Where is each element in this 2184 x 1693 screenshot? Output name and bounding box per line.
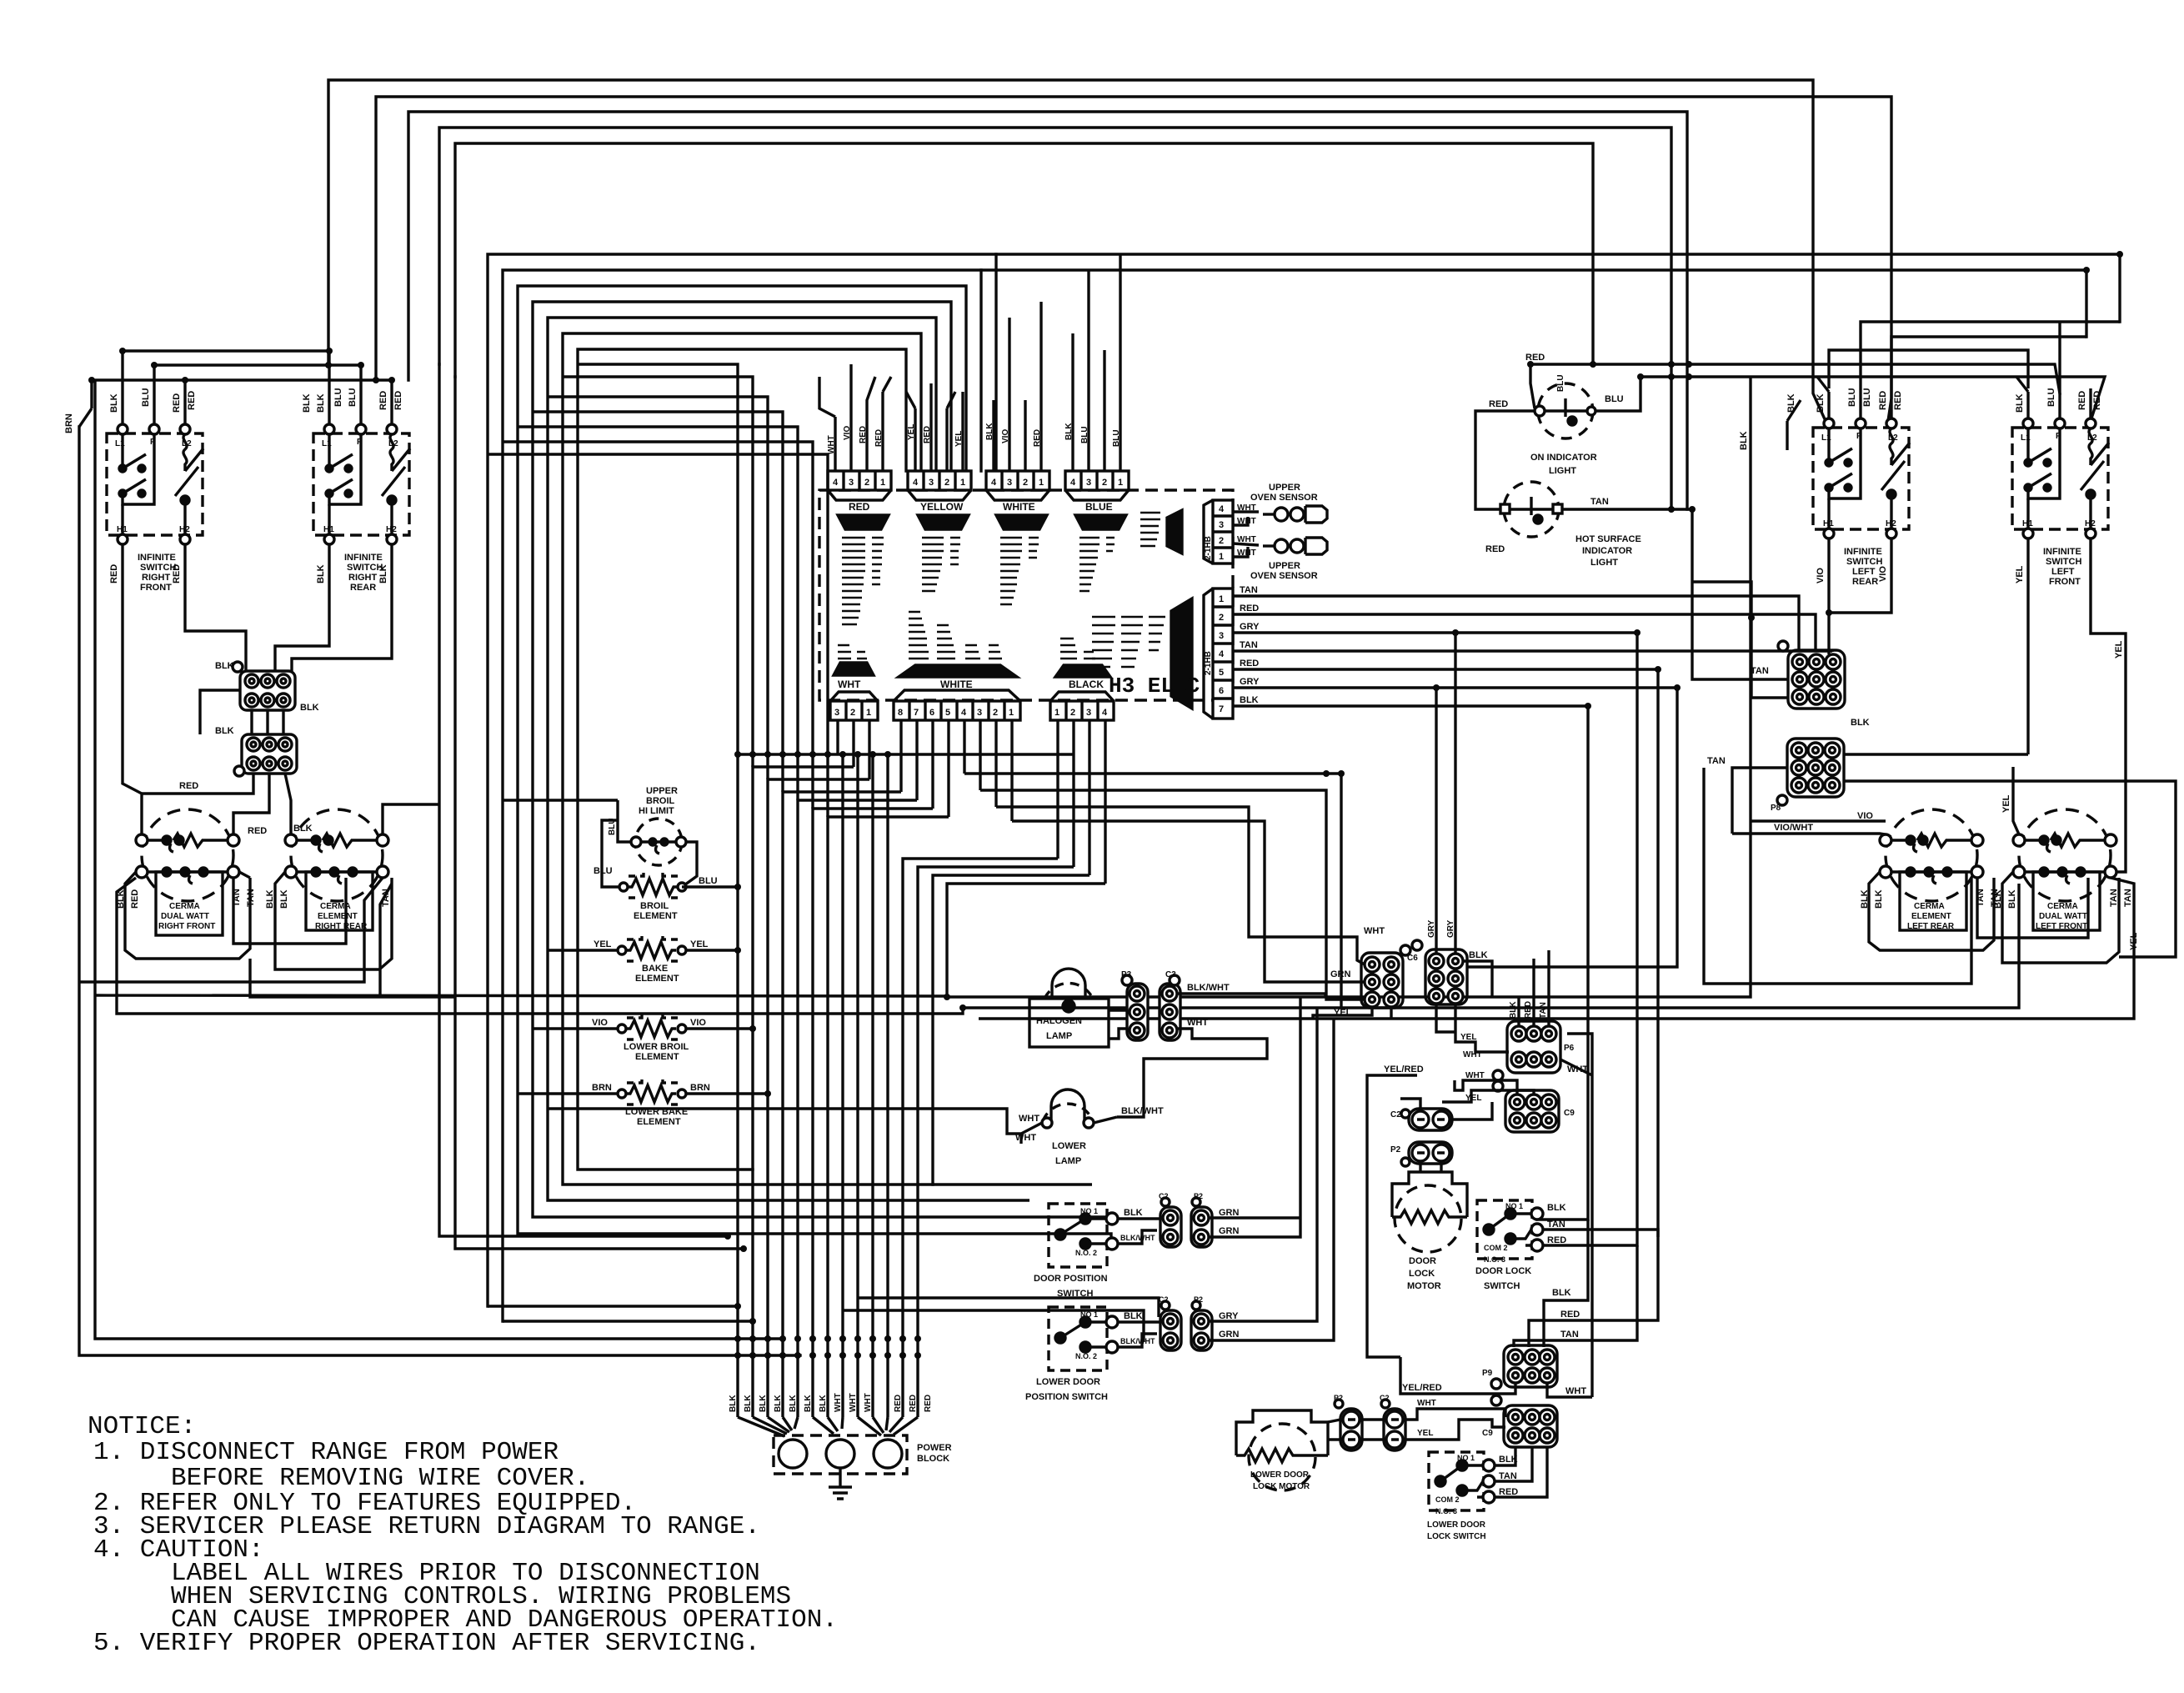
wire lower lamp left [548, 1109, 1042, 1144]
svg-text:LOWER DOOR: LOWER DOOR [1036, 1377, 1100, 1387]
svg-text:BLK: BLK [215, 726, 234, 736]
connector strip white top [986, 471, 1049, 500]
svg-text:H1: H1 [1823, 519, 1834, 528]
svg-text:YEL: YEL [2015, 565, 2025, 584]
svg-text:3: 3 [977, 708, 982, 718]
svg-text:RED: RED [2092, 391, 2102, 410]
p2 connector motor [1401, 1142, 1452, 1166]
bundle vertical 10 [871, 754, 874, 1417]
svg-text:TAN: TAN [2123, 889, 2133, 907]
svg-text:RED: RED [1499, 1487, 1518, 1497]
svg-text:RED: RED [1524, 1001, 1533, 1019]
svg-text:WHT: WHT [834, 1393, 843, 1412]
svg-text:BLK: BLK [2007, 889, 2017, 909]
wire red from block2 to cerma1 [142, 774, 253, 794]
wire cerma lf bottom loops [2002, 872, 2119, 963]
svg-text:SWITCH: SWITCH [1846, 557, 1882, 567]
svg-text:WHITE: WHITE [940, 679, 973, 690]
door position switch [1049, 1204, 1118, 1267]
wire gry row6 [1233, 688, 1677, 967]
svg-text:RED: RED [1240, 659, 1259, 669]
svg-text:RED: RED [172, 564, 182, 584]
svg-text:8: 8 [898, 708, 903, 718]
c3 connector [1160, 975, 1180, 1040]
wire yel-red left of p6 [1367, 1075, 1417, 1357]
wire dls tan [1543, 1230, 1658, 1237]
svg-text:2: 2 [1219, 613, 1224, 623]
svg-text:5. VERIFY PROPER OPERATION AFT: 5. VERIFY PROPER OPERATION AFTER SERVICI… [93, 1629, 760, 1658]
c6 connector [1361, 945, 1410, 1008]
svg-text:BROIL: BROIL [646, 796, 675, 806]
svg-text:WHT: WHT [1237, 548, 1256, 558]
svg-text:SWITCH: SWITCH [1484, 1281, 1520, 1291]
svg-text:LEFT: LEFT [1852, 567, 1876, 577]
wire broil blu right [682, 885, 738, 888]
bundle vertical 5 [798, 800, 917, 1417]
bundle vertical 4 [783, 792, 901, 1417]
wire loop to mid vertical [250, 959, 455, 997]
svg-text:C3: C3 [1165, 970, 1176, 979]
svg-text:BLK: BLK [215, 661, 234, 671]
svg-text:TAN: TAN [1590, 497, 1609, 507]
left section labels [64, 388, 403, 931]
dps p connector [1191, 1198, 1212, 1247]
c2 connector motor [1401, 1109, 1452, 1130]
svg-text:LOWER: LOWER [1052, 1141, 1086, 1151]
wire big left loop 3 [117, 878, 963, 1014]
svg-text:YEL: YEL [690, 939, 709, 949]
svg-text:2: 2 [1219, 536, 1224, 546]
wirelist black bottom [1060, 639, 1095, 659]
wire grn stair3 [964, 774, 1341, 1008]
svg-text:LEFT: LEFT [2051, 567, 2075, 577]
right section labels [1485, 353, 2139, 950]
svg-text:C2: C2 [1380, 1394, 1390, 1402]
svg-text:LEFT REAR: LEFT REAR [1907, 922, 1955, 931]
wire mid nest 6 [563, 333, 933, 1185]
svg-text:RIGHT: RIGHT [348, 573, 378, 583]
svg-text:WHT: WHT [1465, 1071, 1485, 1080]
svg-text:2: 2 [993, 708, 998, 718]
element labels [592, 786, 718, 1127]
svg-text:WHT: WHT [1417, 1399, 1436, 1408]
wire blk vertical right [947, 377, 1751, 997]
wire gry row3 [1233, 633, 1637, 1206]
wire right nest r2 [1891, 337, 2086, 388]
wire wht into c9 [1455, 1080, 1517, 1094]
funnel black bottom [1055, 665, 1110, 677]
svg-text:H2: H2 [1886, 519, 1896, 528]
wire left h1 down [123, 544, 142, 834]
svg-text:NO 1: NO 1 [1505, 1202, 1523, 1210]
svg-text:YEL: YEL [2114, 640, 2124, 659]
svg-text:BLK: BLK [1552, 1288, 1571, 1298]
svg-text:BLK/WHT: BLK/WHT [1187, 983, 1230, 993]
wire yel wht below p8 [1436, 1004, 1509, 1052]
svg-text:C2: C2 [1159, 1192, 1169, 1200]
wire hi limit loop [618, 820, 697, 887]
lamp labels [1015, 970, 1240, 1402]
svg-text:UPPER: UPPER [646, 786, 678, 796]
svg-text:BLK: BLK [1469, 950, 1488, 960]
bundle vertical 12 [903, 859, 1058, 1417]
svg-text:INFINITE: INFINITE [344, 553, 383, 563]
svg-text:P2: P2 [1390, 1145, 1401, 1155]
wire top bus 4 [439, 128, 1671, 510]
svg-text:L1: L1 [322, 439, 332, 448]
svg-text:P: P [2056, 432, 2061, 441]
svg-text:ELEMENT: ELEMENT [1911, 912, 1951, 921]
wire left P bus [154, 365, 361, 424]
svg-text:BLK: BLK [819, 1395, 828, 1412]
dps c connector [1160, 1198, 1181, 1247]
svg-text:BLOCK: BLOCK [917, 1454, 949, 1464]
wire mid nest 7 [578, 349, 906, 1170]
svg-text:4: 4 [1102, 708, 1108, 718]
svg-text:1: 1 [960, 478, 965, 488]
svg-text:LOCK MOTOR: LOCK MOTOR [1253, 1482, 1310, 1491]
wire ldps gry right [1209, 1008, 1334, 1340]
svg-text:BLK: BLK [109, 393, 119, 413]
wire tan row1 [1233, 596, 1799, 652]
wirelist right col2 [1092, 617, 1165, 675]
wirelist right col1 [1140, 513, 1160, 546]
svg-text:3: 3 [849, 478, 854, 488]
wire red to on light [1475, 364, 1535, 509]
svg-text:YEL: YEL [1460, 1033, 1476, 1042]
lower broil element [618, 1013, 686, 1039]
svg-text:BLK: BLK [1124, 1311, 1143, 1321]
wire bundle lower door 1 [858, 1298, 1159, 1317]
lower door lock motor [1236, 1410, 1328, 1490]
wire wht yel to lower c [1405, 1409, 1505, 1440]
svg-text:P6: P6 [1564, 1044, 1575, 1053]
svg-text:C2: C2 [1390, 1110, 1401, 1119]
svg-text:UPPER: UPPER [1269, 483, 1300, 493]
svg-text:1: 1 [1054, 708, 1059, 718]
sensor labels [1237, 483, 1318, 581]
wire mid vertical b [455, 377, 744, 1249]
on indicator light [1535, 383, 1595, 438]
svg-text:WHT: WHT [1463, 1050, 1482, 1059]
svg-text:RED: RED [109, 564, 119, 584]
wirelist text white [1000, 538, 1039, 604]
wire dls red [1543, 1206, 1637, 1245]
svg-text:3: 3 [1086, 478, 1091, 488]
lower bake element [618, 1078, 686, 1104]
svg-text:1. DISCONNECT RANGE FROM POWER: 1. DISCONNECT RANGE FROM POWER [93, 1438, 559, 1467]
connector block P2 left [234, 734, 297, 776]
svg-text:H1: H1 [2022, 519, 2033, 528]
upper broil hi limit [631, 819, 686, 865]
svg-text:INFINITE: INFINITE [1844, 547, 1882, 557]
svg-text:P: P [150, 438, 156, 447]
wire vio junction to block [1827, 634, 1830, 654]
svg-text:H2: H2 [179, 525, 190, 534]
svg-text:UPPER: UPPER [1269, 561, 1300, 571]
svg-text:BLACK: BLACK [1069, 679, 1104, 690]
svg-text:WHT: WHT [1015, 1133, 1036, 1143]
svg-text:YEL: YEL [2129, 932, 2139, 950]
svg-text:2: 2 [850, 708, 855, 718]
svg-text:BLU: BLU [2046, 388, 2056, 407]
svg-text:NO 1: NO 1 [1080, 1310, 1098, 1319]
svg-text:2-1HB: 2-1HB [1204, 536, 1213, 560]
wire blk4 right 1 [933, 875, 1092, 1185]
svg-text:6: 6 [929, 708, 934, 718]
svg-text:LEFT FRONT: LEFT FRONT [2036, 922, 2087, 931]
wire left h2 down [185, 544, 246, 671]
svg-text:BLU: BLU [1556, 374, 1565, 392]
svg-text:P9: P9 [1482, 1369, 1493, 1378]
svg-text:BLUE: BLUE [1085, 501, 1113, 513]
svg-text:3: 3 [1219, 631, 1224, 641]
svg-text:RED: RED [393, 391, 403, 410]
wire mid nest 4 [533, 302, 951, 1217]
svg-text:BLU: BLU [348, 388, 358, 407]
wire nest-to-bundle extension 3 [548, 397, 768, 779]
svg-text:P2: P2 [1334, 1394, 1343, 1402]
upper oven sensor 1 [1233, 506, 1327, 525]
wire blk long left [200, 690, 240, 734]
wire block1 to block2 [252, 710, 283, 734]
cerma dual watt right front [136, 809, 239, 935]
wire right nest r1 drop [2058, 322, 2061, 358]
wire tan from hot light [1562, 509, 1788, 679]
svg-text:BRN: BRN [592, 1083, 612, 1093]
wire hi limit top [503, 799, 618, 801]
wires blue strip up [1073, 254, 1120, 471]
svg-text:GRN: GRN [1330, 969, 1351, 979]
svg-text:INFINITE: INFINITE [138, 553, 176, 563]
svg-text:BLU: BLU [333, 388, 343, 407]
wire cerma loop tan right [233, 878, 346, 944]
svg-text:L2: L2 [2087, 433, 2097, 443]
svg-text:CERMA: CERMA [1914, 902, 1945, 911]
wire lls tan red [1495, 1447, 1547, 1497]
svg-text:H1: H1 [117, 525, 128, 534]
svg-text:WHT: WHT [1565, 1386, 1586, 1396]
svg-text:GRY: GRY [1240, 677, 1260, 687]
bundle vertical 11 [886, 754, 889, 1417]
svg-text:CERMA: CERMA [320, 902, 351, 911]
svg-text:ELEMENT: ELEMENT [637, 1117, 681, 1127]
svg-text:3: 3 [1086, 708, 1091, 718]
svg-text:DOOR LOCK: DOOR LOCK [1475, 1266, 1531, 1276]
svg-text:LOWER BROIL: LOWER BROIL [624, 1042, 689, 1052]
bundle vertical 7 [828, 817, 949, 1417]
svg-text:P3: P3 [1121, 970, 1132, 979]
wires into p6 top [1519, 950, 1549, 1025]
wire bottom left join 1 [488, 1305, 738, 1307]
svg-text:YEL: YEL [2001, 794, 2011, 813]
svg-text:HI LIMIT: HI LIMIT [639, 806, 674, 816]
broil element [619, 871, 686, 898]
wire red row5 [1233, 669, 1658, 1237]
svg-text:L1: L1 [2021, 433, 2031, 443]
wire big left loop 2 [95, 884, 947, 996]
infinite switch left front [2012, 418, 2109, 538]
upper oven sensor 2 [1233, 538, 1327, 557]
svg-text:RED: RED [1547, 1235, 1566, 1245]
svg-text:RIGHT REAR: RIGHT REAR [315, 922, 368, 931]
svg-text:1: 1 [880, 478, 885, 488]
svg-text:TAN: TAN [2109, 889, 2119, 907]
wire vio-wht to cerma lr [1732, 834, 1886, 834]
bundle vertical 9 [856, 754, 859, 1417]
connector strip white bottom 8 [894, 690, 1020, 720]
wire bottom left join 2 [503, 1320, 753, 1322]
svg-text:LAMP: LAMP [1046, 1031, 1072, 1041]
wire white8 pins down [901, 720, 1012, 821]
svg-text:BLK: BLK [1547, 1203, 1566, 1213]
funnel right col2 [1171, 599, 1192, 709]
wire right nest r1 [1861, 322, 2120, 358]
wire nest-to-bundle extension 2 [563, 377, 753, 767]
svg-text:BLK: BLK [1851, 718, 1870, 728]
wire black4 pins down [1058, 720, 1105, 884]
svg-text:BLK: BLK [744, 1395, 753, 1412]
svg-text:TAN: TAN [1240, 640, 1258, 650]
wire lower lamp right [1094, 1117, 1117, 1123]
wire halogen to p3 [1109, 1010, 1128, 1039]
svg-text:BLK: BLK [293, 824, 313, 834]
connector strip blue top [1065, 471, 1129, 500]
svg-text:2: 2 [864, 478, 869, 488]
svg-text:BLU: BLU [141, 388, 151, 407]
svg-text:VIO: VIO [1816, 568, 1826, 584]
svg-text:C9: C9 [1482, 1429, 1493, 1438]
svg-text:TAN: TAN [1707, 756, 1726, 766]
svg-text:SWITCH: SWITCH [2046, 557, 2081, 567]
funnel white [996, 515, 1047, 529]
svg-text:VIO/WHT: VIO/WHT [1774, 823, 1813, 833]
wirelist wht bottom [838, 645, 867, 659]
svg-text:OVEN SENSOR: OVEN SENSOR [1250, 571, 1318, 581]
svg-text:BLK: BLK [1993, 889, 2003, 909]
svg-text:RED: RED [130, 889, 140, 909]
bundle vertical 3 [768, 779, 869, 1417]
label power block [917, 1443, 952, 1464]
wire right loop 2 [963, 884, 2019, 1008]
svg-text:RED: RED [1240, 604, 1259, 614]
right 3x3 connector block 2 [1777, 739, 1844, 805]
svg-text:L2: L2 [1888, 433, 1898, 443]
svg-text:TAN: TAN [232, 889, 242, 907]
svg-text:TAN: TAN [1560, 1330, 1579, 1340]
wire right nest r3 [1829, 350, 2028, 388]
svg-text:H2: H2 [386, 525, 397, 534]
svg-text:LOCK: LOCK [1409, 1269, 1435, 1279]
wire left vertical 1 [79, 427, 800, 1355]
svg-text:BLK: BLK [1739, 431, 1749, 450]
wire blk red tan to lower conn [1514, 1220, 1658, 1347]
ground [829, 1468, 852, 1499]
board bottom pin wires to bundle [838, 720, 1105, 884]
svg-text:L2: L2 [182, 439, 192, 448]
infinite switch right front box [107, 424, 203, 544]
svg-text:P2: P2 [1194, 1192, 1203, 1200]
cerma element left rear [1880, 809, 1983, 930]
svg-text:LAMP: LAMP [1055, 1156, 1081, 1166]
wire yel below c6 [1313, 1008, 1391, 1019]
svg-text:YEL/RED: YEL/RED [1384, 1064, 1424, 1074]
svg-text:RED: RED [1525, 353, 1545, 363]
wire mid vertical a [439, 364, 728, 1236]
ldps p connector [1191, 1301, 1212, 1350]
bundle vertical 6 [813, 809, 933, 1417]
svg-text:YEL: YEL [1334, 1008, 1352, 1018]
svg-text:BLK: BLK [316, 393, 326, 413]
wire switch2 h2 down [292, 544, 392, 671]
svg-text:RIGHT: RIGHT [142, 573, 171, 583]
wire c3 wht right [1117, 1029, 1267, 1117]
svg-text:BLK: BLK [804, 1395, 813, 1412]
power block fan-in [738, 1417, 918, 1436]
svg-text:6: 6 [1219, 686, 1224, 696]
wires yellow strip up [915, 383, 963, 471]
wirelist text blue [1079, 538, 1115, 591]
cerma dual watt left front [2013, 809, 2116, 930]
svg-text:BLK: BLK [774, 1395, 783, 1412]
svg-text:LOWER DOOR: LOWER DOOR [1250, 1470, 1310, 1480]
svg-text:HALOGEN: HALOGEN [1036, 1016, 1082, 1026]
svg-text:BLU: BLU [1605, 394, 1624, 404]
col2 wire labels [1240, 585, 1260, 705]
svg-text:WHT: WHT [1567, 1064, 1588, 1074]
wire mid nest 2 drop [979, 270, 982, 471]
wire bundle to lamps 2 [888, 1217, 1109, 1222]
cerma element right rear [285, 809, 388, 930]
board right connector column 2 [1204, 589, 1233, 719]
bundle wire labels [729, 1393, 933, 1412]
svg-text:SWITCH: SWITCH [140, 563, 176, 573]
svg-text:4: 4 [1070, 478, 1076, 488]
svg-text:C6: C6 [1407, 954, 1418, 963]
control board H3 ELEC outline [819, 490, 1233, 700]
svg-text:GRY: GRY [1427, 919, 1436, 938]
svg-text:1: 1 [1039, 478, 1044, 488]
svg-text:RED: RED [924, 1395, 933, 1412]
svg-text:1: 1 [1219, 594, 1224, 604]
svg-text:BLK: BLK [759, 1395, 768, 1412]
wire vio down from left rear [1829, 538, 1891, 634]
svg-text:BLK: BLK [300, 703, 319, 713]
svg-text:GRY: GRY [1219, 1311, 1239, 1321]
wire left L2 bus [79, 380, 392, 427]
svg-text:DUAL WATT: DUAL WATT [2039, 912, 2087, 921]
p3 connector [1122, 975, 1148, 1040]
svg-text:5: 5 [945, 708, 950, 718]
p6 connector [1493, 1021, 1560, 1080]
bundle vertical 13 [918, 867, 1074, 1417]
svg-text:BLK: BLK [1816, 393, 1826, 413]
wire mid nest 1 drop [994, 254, 997, 471]
wire switch2 h1 down [275, 544, 329, 671]
svg-text:LIGHT: LIGHT [1549, 466, 1576, 476]
svg-text:N.O. 3: N.O. 3 [1435, 1507, 1457, 1515]
wire dps to c [1118, 1219, 1163, 1244]
svg-text:TAN: TAN [1499, 1471, 1517, 1481]
wire blk to cerma2 left [285, 774, 291, 834]
svg-text:ON INDICATOR: ON INDICATOR [1530, 453, 1597, 463]
wire top bus 5 red [455, 143, 1593, 377]
svg-text:BLK: BLK [378, 564, 388, 584]
connector block P1 left [233, 662, 295, 710]
svg-text:WHITE: WHITE [1003, 501, 1035, 513]
wire cerma1 bottom left loop [125, 872, 250, 959]
wire yel block2 far right loop [1844, 781, 2176, 957]
